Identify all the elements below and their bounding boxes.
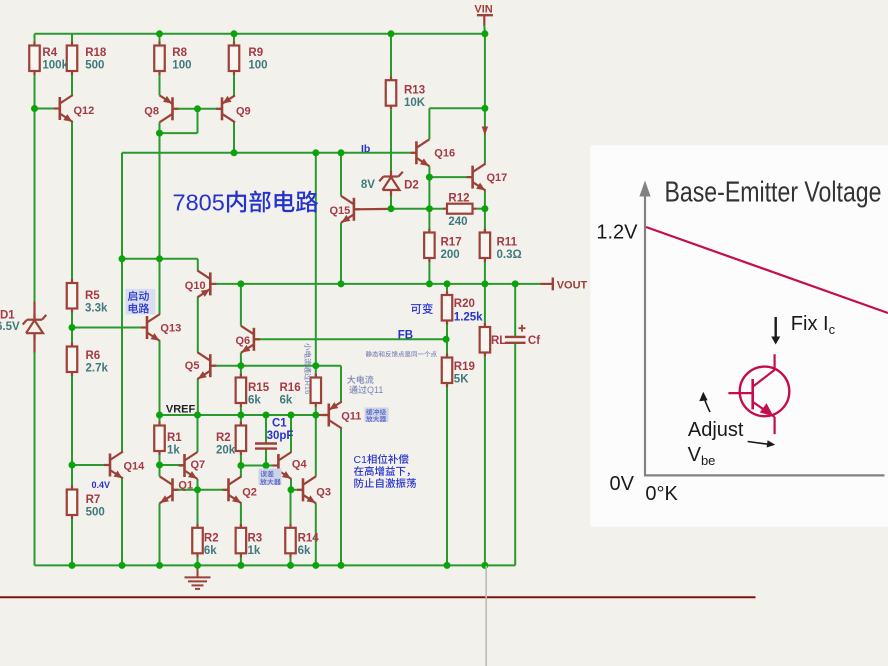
svg-text:6k: 6k xyxy=(248,395,261,407)
svg-text:Base-Emitter Voltage: Base-Emitter Voltage xyxy=(665,177,882,209)
svg-text:VREF: VREF xyxy=(166,404,196,416)
svg-text:R14: R14 xyxy=(298,533,320,545)
svg-text:误差: 误差 xyxy=(260,470,274,478)
svg-text:R1: R1 xyxy=(167,432,182,444)
svg-text:防止自激振荡: 防止自激振荡 xyxy=(354,478,417,490)
svg-text:Q4: Q4 xyxy=(292,458,308,470)
svg-text:D1: D1 xyxy=(0,310,15,322)
svg-text:R7: R7 xyxy=(86,494,101,506)
svg-text:1.25k: 1.25k xyxy=(454,312,483,324)
svg-text:2.7k: 2.7k xyxy=(86,363,109,375)
svg-text:0.4V: 0.4V xyxy=(92,480,111,490)
svg-text:5K: 5K xyxy=(454,374,469,386)
svg-text:R2: R2 xyxy=(204,533,219,545)
svg-text:6.5V: 6.5V xyxy=(0,321,20,333)
svg-text:200: 200 xyxy=(441,249,460,261)
svg-text:R5: R5 xyxy=(85,290,100,302)
svg-text:Q8: Q8 xyxy=(144,105,159,117)
svg-text:R9: R9 xyxy=(248,47,263,59)
svg-text:8V: 8V xyxy=(361,179,375,191)
svg-text:Q9: Q9 xyxy=(236,105,251,117)
svg-text:R12: R12 xyxy=(448,193,469,205)
svg-text:6k: 6k xyxy=(204,545,217,557)
svg-text:0V: 0V xyxy=(610,473,635,495)
svg-text:Q16: Q16 xyxy=(434,147,455,159)
svg-text:1k: 1k xyxy=(248,545,261,557)
svg-text:FB: FB xyxy=(398,329,413,341)
svg-text:RL: RL xyxy=(491,335,506,347)
svg-text:R18: R18 xyxy=(85,47,107,59)
svg-text:0.3Ω: 0.3Ω xyxy=(497,249,522,261)
svg-text:30pF: 30pF xyxy=(267,430,294,442)
svg-text:R20: R20 xyxy=(454,298,475,310)
svg-text:Q1: Q1 xyxy=(178,479,193,491)
svg-text:可变: 可变 xyxy=(410,303,433,316)
svg-text:R6: R6 xyxy=(86,350,101,362)
svg-text:Q17: Q17 xyxy=(487,172,508,184)
svg-text:Q12: Q12 xyxy=(74,105,95,117)
svg-text:R15: R15 xyxy=(248,382,270,394)
svg-text:100k: 100k xyxy=(42,60,68,72)
svg-text:Q3: Q3 xyxy=(316,486,331,498)
svg-text:10K: 10K xyxy=(404,97,426,109)
svg-text:3.3k: 3.3k xyxy=(85,303,108,315)
svg-text:电路: 电路 xyxy=(127,302,149,315)
svg-text:20k: 20k xyxy=(216,445,236,457)
svg-text:R8: R8 xyxy=(172,47,187,59)
svg-text:VIN: VIN xyxy=(474,4,492,16)
svg-text:R11: R11 xyxy=(497,237,518,249)
svg-text:500: 500 xyxy=(85,60,104,72)
svg-text:C1相位补偿: C1相位补偿 xyxy=(354,454,410,466)
svg-text:C1: C1 xyxy=(272,418,287,430)
svg-text:小电流通过R16: 小电流通过R16 xyxy=(303,343,312,394)
svg-text:500: 500 xyxy=(86,507,105,519)
svg-text:VOUT: VOUT xyxy=(557,279,588,291)
svg-text:1k: 1k xyxy=(167,445,180,457)
svg-text:1.2V: 1.2V xyxy=(596,221,638,243)
svg-text:100: 100 xyxy=(248,60,267,72)
svg-text:大电流: 大电流 xyxy=(347,375,374,385)
svg-text:R17: R17 xyxy=(441,237,462,249)
svg-text:Q14: Q14 xyxy=(124,461,146,473)
svg-text:D2: D2 xyxy=(404,180,419,192)
svg-text:Q15: Q15 xyxy=(330,205,351,217)
svg-text:R4: R4 xyxy=(42,47,57,59)
svg-text:R16: R16 xyxy=(280,382,301,394)
svg-text:通过Q11: 通过Q11 xyxy=(349,385,383,395)
svg-text:6k: 6k xyxy=(280,395,293,407)
svg-text:R13: R13 xyxy=(404,85,425,97)
svg-text:0°K: 0°K xyxy=(645,483,678,505)
svg-text:Ib: Ib xyxy=(361,143,370,155)
svg-text:Cf: Cf xyxy=(528,335,540,347)
svg-text:100: 100 xyxy=(172,60,191,72)
svg-text:在高增益下，: 在高增益下， xyxy=(354,466,417,478)
svg-text:Adjust: Adjust xyxy=(688,419,744,441)
svg-text:Q13: Q13 xyxy=(160,323,181,335)
svg-text:放大器: 放大器 xyxy=(366,416,387,424)
svg-text:放大器: 放大器 xyxy=(260,478,281,486)
svg-text:6k: 6k xyxy=(298,545,311,557)
svg-text:Q10: Q10 xyxy=(185,280,206,292)
svg-text:静态和反馈点是同一个点: 静态和反馈点是同一个点 xyxy=(366,351,438,359)
svg-text:R2: R2 xyxy=(216,432,231,444)
svg-text:启动: 启动 xyxy=(127,290,149,303)
svg-text:缓冲级: 缓冲级 xyxy=(366,409,387,417)
svg-text:7805内部电路: 7805内部电路 xyxy=(173,190,319,216)
svg-text:Q11: Q11 xyxy=(341,410,361,422)
svg-text:Q2: Q2 xyxy=(242,486,257,498)
svg-text:Q5: Q5 xyxy=(185,360,200,372)
svg-text:Q7: Q7 xyxy=(191,459,206,471)
svg-text:R19: R19 xyxy=(454,361,475,373)
svg-text:R3: R3 xyxy=(248,533,263,545)
svg-text:240: 240 xyxy=(448,216,467,228)
svg-text:Q6: Q6 xyxy=(236,335,251,347)
